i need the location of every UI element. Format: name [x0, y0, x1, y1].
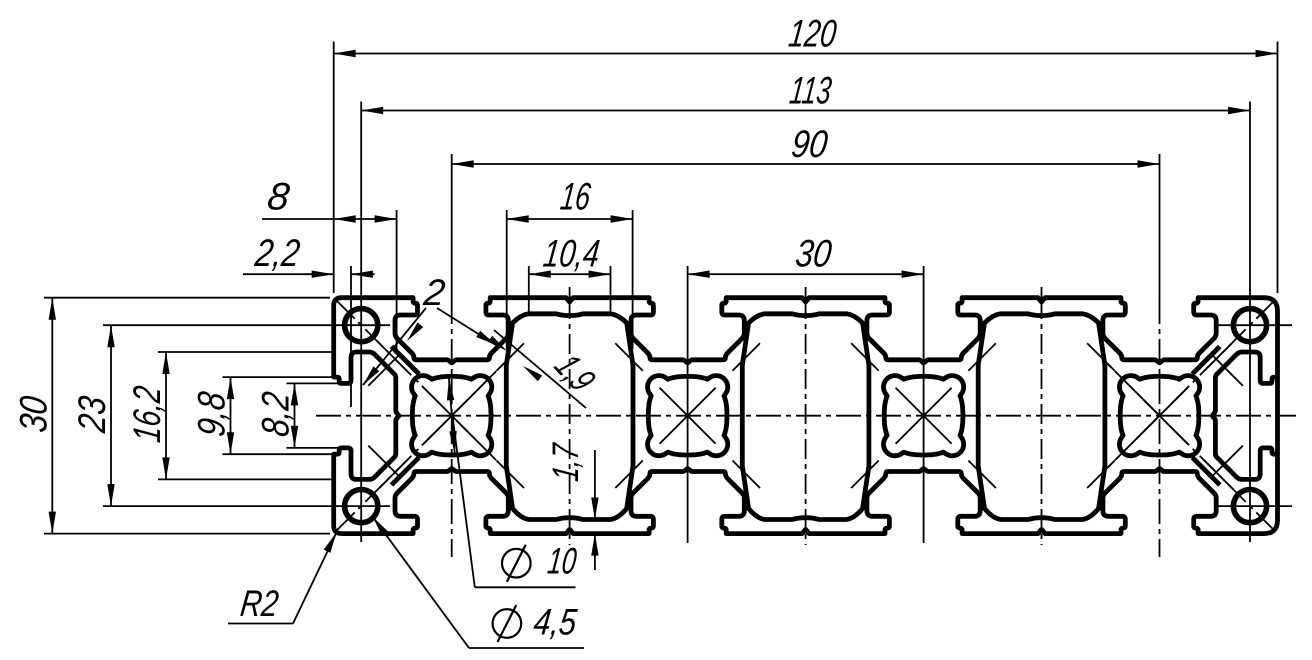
dimension 10,4 cavity throat width — [528, 266, 530, 316]
node core hole 3 diameter 10 — [884, 376, 964, 456]
node interior cavity 2 — [742, 314, 869, 520]
svg-text:R2: R2 — [238, 582, 281, 624]
svg-text:113: 113 — [787, 70, 834, 113]
dimension diameter 10 core — [449, 378, 455, 453]
node diagonal centerline top-right hole to core 4 — [1107, 301, 1275, 469]
wire profile outer contour with T-slots — [334, 298, 1278, 534]
dimension 2,2 end lip wall — [350, 266, 352, 407]
dimension 30 overall height — [44, 297, 330, 299]
svg-text:16: 16 — [558, 176, 593, 219]
svg-text:8,2: 8,2 — [255, 389, 298, 438]
node core 3 center cross — [896, 388, 952, 444]
node interior cavity 3 — [978, 314, 1105, 520]
svg-text:10: 10 — [546, 540, 580, 582]
node core 1 vertical centerline / 90-dim extension — [451, 154, 453, 299]
wire web walls at profile ends — [392, 347, 420, 375]
dimension 9,8 end slot face opening — [223, 376, 342, 378]
dimension 30 module pitch — [688, 273, 924, 275]
node top-right screw hole diameter 4,5 — [1233, 309, 1266, 342]
node top-left screw hole diameter 4,5 — [345, 309, 378, 342]
dimension 120 overall width — [333, 42, 335, 294]
wire web tangent lines at end-slot shoulders — [368, 356, 398, 386]
svg-text:9,8: 9,8 — [191, 389, 234, 439]
svg-text:30: 30 — [12, 393, 55, 434]
dimension 113 hole spacing — [361, 110, 1250, 112]
node interior cavity 1 — [506, 314, 633, 520]
dimension 1,7 bottom wall thickness — [594, 450, 596, 520]
node main horizontal centerline — [316, 415, 1296, 417]
node core 3 vertical centerline / 30-dim extension — [923, 266, 925, 543]
dimension diameter 4,5 corner holes — [373, 517, 470, 649]
node core 2 center cross — [660, 388, 716, 444]
node core 2 vertical centerline / 30-dim extension — [687, 266, 689, 543]
node core hole 2 diameter 10 — [648, 376, 728, 456]
node diagonal centerline bottom-right hole to core 4 — [1107, 363, 1275, 530]
dimension 23 hole vertical spacing — [110, 325, 112, 506]
node left corner holes horizontal centerline / 23-dim extension — [103, 324, 390, 326]
wire web tangent lines at slot shoulders — [379, 343, 407, 371]
node core 4 center cross — [1132, 388, 1188, 444]
svg-text:120: 120 — [786, 13, 839, 56]
svg-text:23: 23 — [71, 393, 114, 435]
node core hole 1 diameter 10 — [412, 376, 492, 456]
node bottom-right screw hole diameter 4,5 — [1233, 490, 1266, 523]
svg-text:2,2: 2,2 — [252, 232, 302, 275]
node right corner holes vertical centerline / 113-dim extension — [1249, 102, 1251, 543]
node diagonal centerline top-left hole to core 1 — [337, 301, 505, 469]
dimension 90 core spacing — [452, 163, 1160, 165]
node cavity 1 vertical centerline — [569, 287, 571, 299]
svg-text:90: 90 — [789, 123, 830, 166]
node core 4 vertical centerline / 90-dim extension — [1159, 154, 1161, 299]
node left corner holes vertical centerline / 113-dim extension — [360, 102, 362, 543]
dimension 16,2 end cavity width — [158, 351, 336, 353]
svg-text:1,7: 1,7 — [544, 441, 586, 484]
svg-text:10,4: 10,4 — [541, 233, 602, 276]
dimension 1,9 wall thickness callout — [494, 330, 586, 408]
node cavity 2 vertical centerline — [805, 287, 807, 299]
svg-text:30: 30 — [793, 233, 834, 276]
dimension 8 corner block depth — [396, 210, 398, 350]
node core hole 4 diameter 10 — [1119, 376, 1199, 456]
node right corner holes horizontal centerline — [1216, 324, 1292, 326]
dimension 8,2 end slot lip opening — [287, 382, 351, 384]
svg-text:4,5: 4,5 — [532, 601, 580, 643]
node diagonal centerline bottom-left hole to core 1 — [337, 363, 505, 530]
dimension 16 cavity width — [506, 210, 508, 349]
node bottom-left screw hole diameter 4,5 — [345, 490, 378, 523]
node core 1 center cross — [424, 388, 480, 444]
svg-text:16,2: 16,2 — [126, 384, 169, 445]
node cavity 3 vertical centerline — [1041, 287, 1043, 299]
